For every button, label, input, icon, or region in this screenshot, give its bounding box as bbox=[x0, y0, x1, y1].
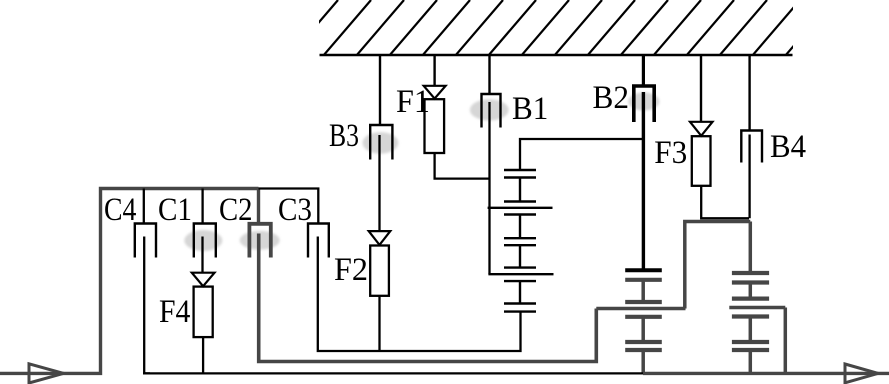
clutch C2 inner line + carrier path to P3 bbox=[259, 234, 597, 362]
brake B2 feed (thick) bbox=[642, 55, 645, 86]
one-way clutch F2 body bbox=[370, 246, 389, 296]
one-way clutch F3 lead + node to B4 bbox=[701, 186, 749, 219]
one-way clutch F4 triangle bbox=[192, 273, 215, 287]
highlight blob B1 bbox=[470, 99, 509, 120]
svg-text:F4: F4 bbox=[159, 294, 190, 330]
svg-text:F1: F1 bbox=[396, 84, 430, 120]
brake B4 inner line down to node bbox=[748, 135, 750, 219]
one-way clutch F2 triangle bbox=[369, 231, 391, 245]
output riser from P4 ring bbox=[784, 308, 788, 374]
clutch C1 bracket bbox=[194, 224, 216, 258]
brake B3 feed bbox=[379, 55, 381, 125]
brake B2 bracket (thick) bbox=[634, 86, 654, 122]
highlight blob C2 bbox=[240, 231, 280, 250]
svg-text:C3: C3 bbox=[278, 192, 312, 228]
highlight blob B3 bbox=[363, 132, 399, 154]
bottom gray output bus with arrow bbox=[643, 372, 889, 375]
bottom black bus (C4/F4 to P3) bbox=[143, 372, 643, 374]
ground case bottom line bbox=[320, 54, 793, 56]
one-way clutch F2 lead to bus bbox=[378, 296, 380, 351]
highlight blob B2 bbox=[628, 92, 659, 110]
clutch C3 bracket bbox=[308, 224, 329, 258]
highlight blob C1 bbox=[184, 230, 222, 251]
brake B1 bracket bbox=[482, 94, 501, 128]
output arrow head bbox=[845, 364, 878, 383]
svg-text:B1: B1 bbox=[512, 91, 548, 127]
svg-text:F3: F3 bbox=[654, 135, 687, 171]
brake B3 inner line down to F2 bbox=[378, 135, 380, 231]
svg-text:B2: B2 bbox=[593, 80, 630, 116]
clutch C1 feed bbox=[201, 189, 203, 224]
svg-text:B4: B4 bbox=[770, 129, 806, 165]
one-way clutch F1 triangle bbox=[424, 86, 446, 99]
one-way clutch F1 lead to B1 line bbox=[435, 153, 490, 179]
input shaft with arrow bbox=[0, 189, 259, 374]
planetary P3 gray plates and column bbox=[596, 280, 685, 374]
brake B4 bracket bbox=[741, 131, 762, 163]
brake B2 inner line down to sun (thick) bbox=[642, 92, 645, 270]
brake B1 feed bbox=[488, 55, 490, 94]
one-way clutch F3 triangle bbox=[690, 122, 713, 136]
brake B4 feed bbox=[748, 55, 750, 131]
one-way clutch F1 body bbox=[425, 99, 445, 153]
one-way clutch F1 feed bbox=[433, 55, 435, 86]
brake B2 sun plate (black) bbox=[625, 268, 662, 272]
input arrow head bbox=[29, 364, 64, 383]
clutch C3 inner line to bus 351 bbox=[318, 237, 521, 352]
one-way clutch F4 lead to bus bbox=[202, 337, 204, 373]
clutch C4 bracket bbox=[135, 224, 156, 258]
svg-text:C4: C4 bbox=[104, 192, 136, 228]
brake B3 bracket bbox=[370, 125, 392, 160]
one-way clutch F3 body bbox=[692, 136, 711, 186]
ground case hatching bbox=[290, 0, 833, 56]
one-way clutch F4 body bbox=[194, 287, 213, 338]
clutch C2 bracket bbox=[249, 224, 270, 258]
svg-text:C2: C2 bbox=[219, 192, 253, 228]
clutch C2 feed (thick gray, from drum top) bbox=[257, 189, 260, 223]
svg-text:F2: F2 bbox=[334, 252, 368, 288]
clutch C4 feed bbox=[143, 189, 145, 224]
clutch C4 inner line to bottom bus bbox=[144, 237, 150, 374]
one-way clutch F3 feed bbox=[700, 55, 702, 122]
svg-text:C1: C1 bbox=[158, 192, 192, 228]
planetary P4 gray plates and column bbox=[729, 222, 785, 374]
svg-text:B3: B3 bbox=[329, 118, 359, 154]
middle gearset top connector to B2 line bbox=[520, 139, 643, 170]
brake B1 inner line down to planetary bbox=[488, 102, 490, 274]
middle planetary gearset plates bbox=[488, 170, 554, 312]
clutch C1 inner line bbox=[201, 237, 203, 273]
bridge P3 carrier to P4 bbox=[685, 222, 751, 309]
drum top thin line to C3 bbox=[259, 189, 319, 224]
